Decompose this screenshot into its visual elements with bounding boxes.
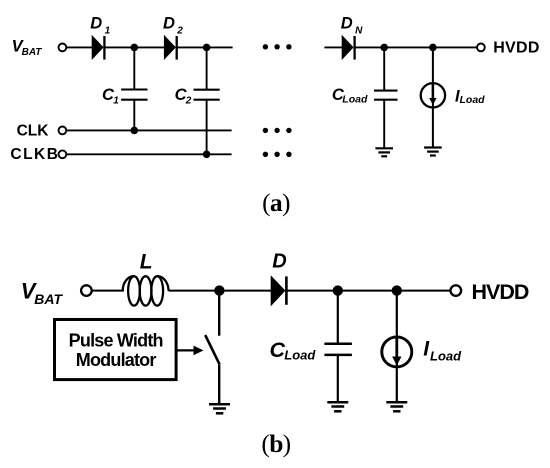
capacitor C1 <box>121 47 147 131</box>
diode DN <box>342 35 355 60</box>
current source ILoad (b) <box>382 291 412 403</box>
terminal VBAT (a) <box>59 44 67 52</box>
svg-text:D: D <box>341 15 353 33</box>
terminal VBAT (b) <box>81 285 92 296</box>
box pulse width modulator <box>55 320 177 380</box>
capacitor CLoad (b) <box>324 291 352 403</box>
current source ILoad (a) <box>421 47 445 147</box>
label D1 <box>90 15 110 37</box>
label VBAT (a) <box>12 38 43 58</box>
node CLoad (a) <box>380 44 388 52</box>
switch wire lower <box>218 365 220 404</box>
svg-text:CLK: CLK <box>17 122 50 139</box>
wire D to HVDD <box>286 290 450 292</box>
wire L to D <box>169 290 272 292</box>
svg-text:Modulator: Modulator <box>76 350 157 370</box>
terminal CLK <box>59 126 67 134</box>
svg-text:C: C <box>270 338 286 362</box>
diode D (b) <box>271 275 287 306</box>
terminal CLKB <box>59 150 67 158</box>
ground CLoad (b) <box>327 402 348 411</box>
svg-text:1: 1 <box>105 26 111 37</box>
switch blade <box>205 335 219 364</box>
wire VBAT to L <box>92 290 124 292</box>
svg-text:D: D <box>90 15 102 33</box>
ground ILoad (b) <box>386 402 407 411</box>
label ILoad (b) <box>423 338 462 364</box>
terminal HVDD (b) <box>451 285 462 296</box>
wire CLK <box>67 129 232 131</box>
label VBAT (b) <box>21 278 64 307</box>
label CLoad (a) <box>332 86 368 106</box>
label C1 <box>102 86 119 107</box>
wire VBAT to D1 <box>67 46 92 48</box>
node switch <box>214 285 224 295</box>
label C2 <box>175 86 192 107</box>
svg-text:CLKB: CLKB <box>10 146 59 163</box>
label CLoad (b) <box>270 338 317 362</box>
ellipsis top row <box>263 44 292 49</box>
node after D2 <box>203 44 211 52</box>
svg-text:L: L <box>140 250 153 273</box>
node CLoad (b) <box>333 285 343 295</box>
svg-text:Load: Load <box>284 347 316 362</box>
svg-text:BAT: BAT <box>34 291 63 307</box>
wire D2 to break <box>177 46 233 48</box>
svg-text:Pulse Width: Pulse Width <box>69 330 163 350</box>
svg-text:(a): (a) <box>262 188 290 217</box>
svg-text:D: D <box>163 15 175 33</box>
svg-text:Load: Load <box>430 349 462 364</box>
capacitor C2 <box>194 47 220 155</box>
ellipsis CLK row <box>263 128 292 133</box>
svg-text:BAT: BAT <box>22 47 43 58</box>
text pulse width modulator <box>69 330 163 370</box>
svg-text:Load: Load <box>460 94 486 106</box>
ground CLoad (a) <box>375 148 393 156</box>
label DN <box>341 15 363 37</box>
ground switch <box>209 404 230 413</box>
ellipsis CLKB row <box>263 152 292 157</box>
inductor L <box>123 276 169 305</box>
svg-text:Load: Load <box>342 94 368 106</box>
node after D1 <box>131 44 139 52</box>
wire DN to HVDD terminal <box>355 46 478 48</box>
capacitor CLoad (a) <box>374 47 398 148</box>
svg-text:HVDD: HVDD <box>472 280 529 304</box>
svg-text:1: 1 <box>113 95 119 106</box>
node CLKB-C2 <box>203 151 211 159</box>
ground ILoad (a) <box>424 148 442 156</box>
svg-text:D: D <box>272 251 286 273</box>
svg-text:HVDD: HVDD <box>493 40 540 57</box>
svg-text:(b): (b) <box>261 429 290 458</box>
switch wire upper <box>218 291 220 336</box>
node CLK-C1 <box>131 127 139 135</box>
wire CLKB <box>67 153 232 155</box>
label ILoad (a) <box>455 87 485 106</box>
diode D2 <box>164 35 177 60</box>
node ILoad (a) <box>429 44 437 52</box>
wire break to DN <box>324 46 342 48</box>
svg-text:2: 2 <box>185 96 192 107</box>
label D2 <box>163 15 183 37</box>
wire D1 to D2 <box>104 46 164 48</box>
svg-text:2: 2 <box>176 26 183 37</box>
terminal HVDD (a) <box>477 44 485 52</box>
diode D1 <box>92 35 105 60</box>
node ILoad (b) <box>392 285 402 295</box>
arrow PWM to switch <box>176 346 203 356</box>
svg-text:N: N <box>355 26 363 37</box>
